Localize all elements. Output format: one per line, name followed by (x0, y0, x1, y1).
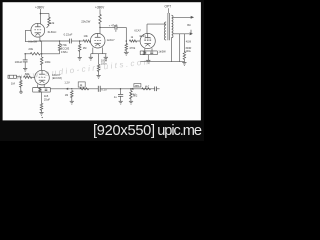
svg-text:4Ω/8: 4Ω/8 (186, 40, 192, 43)
watermark bar (0, 120, 204, 141)
svg-text:[920x550]upic.me: [920x550]upic.me (93, 123, 202, 139)
wire 470k top lead (59, 41, 61, 44)
wire B+ feed V1 upper (39, 9, 41, 24)
wire nfb cap lead (120, 89, 122, 95)
resistor Rk V3 (144, 51, 146, 55)
wire B+ stage2 (99, 9, 101, 14)
inductor OPT primary (165, 22, 166, 40)
core OPT (167, 13, 169, 40)
wire 470k g lead2 (125, 51, 127, 53)
ground 470k (124, 51, 129, 53)
resistor R NFB leg (40, 103, 43, 110)
wire 1M top lead (79, 41, 81, 44)
svg-text:4k7: 4k7 (145, 84, 150, 88)
wire 470k g lead (125, 41, 127, 44)
resistor R grid stopper stage2 (83, 40, 90, 43)
wire 470k bottom lead (59, 51, 61, 54)
svg-text:1M: 1M (65, 94, 68, 97)
resistor Rk V1b (39, 88, 41, 93)
wire V2 stub right (105, 54, 107, 57)
wire nfb res lead2 (130, 99, 132, 101)
node junction upper B+ (40, 13, 42, 15)
capacitor C 47uF (114, 25, 116, 29)
ground 1M (78, 56, 82, 58)
svg-text:22k/2W: 22k/2W (81, 19, 91, 23)
resistor R grid stopper power (129, 40, 136, 42)
ground nfb a (70, 100, 74, 102)
wire filter cap bottom lead (24, 62, 26, 68)
svg-text:100u: 100u (101, 62, 107, 66)
node NFB b (120, 88, 122, 90)
wire ground bus (140, 61, 184, 63)
box label NFB (134, 84, 141, 87)
wire cathode center down (41, 92, 43, 103)
resistor R grid leak 470k (125, 44, 128, 51)
wire cap stub (115, 30, 117, 32)
wire shunt lead (183, 59, 185, 62)
ground nfb b (119, 100, 123, 102)
arrow NFB mid (131, 88, 134, 90)
svg-text:+380V: +380V (95, 5, 105, 9)
wire coupling corner (125, 27, 127, 41)
ground V2 cathode (97, 74, 101, 76)
node gnd dot (42, 117, 43, 118)
wire V3 top bar (140, 50, 157, 52)
terminal 4ohm (190, 30, 192, 35)
svg-text:470k: 470k (61, 43, 67, 47)
wire signal line y41 (40, 40, 69, 42)
svg-text:(ECC83): (ECC83) (52, 77, 62, 80)
wire V1a grid to signal node (25, 30, 31, 41)
svg-text:6CA7: 6CA7 (134, 28, 141, 32)
svg-text:OPT: OPT (165, 5, 172, 9)
svg-text:68k: 68k (25, 72, 30, 76)
wire R bottom lead (47, 25, 49, 27)
resistor R 470k (58, 44, 61, 51)
wire sec return left (171, 38, 173, 62)
tube V1a upper triode (31, 23, 45, 37)
wire V2 cathode down (98, 54, 100, 64)
resistor R plate V1b (40, 57, 43, 65)
svg-text:470k: 470k (129, 46, 135, 50)
svg-text:1k5: 1k5 (44, 94, 49, 98)
wire OPT top lead (168, 8, 170, 13)
ground V2 right (104, 56, 108, 58)
svg-text:+ 47uF: + 47uF (109, 23, 118, 27)
tube V3 power pentode (140, 33, 155, 48)
svg-text:NFB: NFB (135, 86, 140, 88)
ground sec shunt (182, 62, 186, 64)
wire plate V3 up (146, 24, 148, 33)
node plate stage2 (99, 27, 101, 29)
svg-text:1k/5W: 1k/5W (158, 49, 166, 53)
node rail left end (24, 53, 26, 55)
wire cathode left post (32, 88, 34, 93)
svg-text:NFB 1: NFB 1 (130, 94, 137, 96)
wire V2 stub left (90, 54, 92, 57)
svg-text:0.1k/1W: 0.1k/1W (28, 41, 38, 44)
wire V2 pin right (102, 47, 104, 53)
arrow 8ohm (191, 16, 194, 19)
svg-text:+380V: +380V (35, 5, 45, 9)
svg-text:0.1u: 0.1u (101, 87, 107, 91)
wire sec return right (179, 34, 181, 62)
capacitor C filter 100uF (23, 59, 28, 61)
wire branch to R plate upper (40, 13, 49, 15)
wire V3 pin left (144, 48, 146, 51)
node signal/plate (40, 40, 42, 42)
ground nfb c (129, 100, 133, 102)
wire V2 pin left (92, 48, 94, 54)
svg-text:EL34: EL34 (140, 34, 147, 38)
wire plate column V1b (41, 41, 43, 57)
wire nfb cap lead2 (120, 96, 122, 101)
svg-text:ECC83: ECC83 (61, 46, 70, 50)
resistor R 1M nfb (71, 91, 74, 98)
capacitor C coupling 0.22uF (68, 39, 70, 44)
svg-text:8Ω: 8Ω (187, 23, 190, 27)
inductor OPT secondary (172, 15, 173, 37)
wire grid power (137, 40, 141, 42)
resistor R decoupling 20k (30, 53, 40, 56)
wire plate lead stage2 (99, 24, 101, 34)
resistor R nfb shunt (130, 91, 133, 99)
wire R top lead (48, 14, 50, 18)
wire cathode pin right (43, 84, 45, 87)
wire V3 right post (156, 51, 158, 55)
resistor R series nfb (80, 88, 89, 90)
wire cathode bottom bar (33, 91, 51, 93)
wire V1a cathode stub (39, 37, 41, 41)
resistor R grid leak 1M (78, 44, 81, 51)
wire B+ rail stage1 (25, 53, 30, 55)
resistor R upper bypass (48, 17, 51, 25)
wire 1M input top lead (20, 77, 22, 80)
wire cathode pin left (37, 84, 39, 87)
svg-text:1.2V: 1.2V (64, 81, 70, 85)
resistor R input 1M (20, 80, 23, 87)
ground V3 cathode (146, 59, 150, 61)
wire cathode right post (49, 88, 51, 93)
ground V1b cathode (39, 111, 43, 113)
resistor R grid stopper 68k (24, 76, 32, 79)
arrow 4ohm (190, 32, 193, 35)
resistor R plate 22k (99, 14, 102, 23)
svg-text:1M: 1M (11, 81, 16, 85)
svg-text:6L6GC: 6L6GC (48, 30, 57, 34)
wire 4ohm tap (173, 33, 190, 35)
wire grid V1b (32, 76, 35, 78)
wire V3 left post (139, 51, 141, 55)
capacitor C series nfb (97, 86, 99, 92)
svg-text:20k: 20k (28, 47, 33, 51)
node rail crossing (41, 53, 43, 55)
wire V3 cathode down (147, 55, 149, 60)
wire V3 pin right (151, 48, 153, 51)
svg-text:0.22uF: 0.22uF (64, 32, 73, 36)
node NFB a (71, 88, 73, 90)
wire filter cap top lead (24, 54, 26, 60)
wire V3 bottom bar (140, 54, 157, 56)
tube V1b input triode (35, 70, 50, 85)
svg-text:100uF: 100uF (15, 60, 23, 64)
resistor Rk V2 (97, 64, 100, 71)
capacitor Ck V1b (45, 88, 48, 90)
node 1M top (79, 40, 81, 42)
box label 1k (78, 82, 85, 87)
svg-text:0.68u: 0.68u (61, 50, 68, 54)
wire 1M input bottom lead (20, 87, 22, 91)
wire nfb res lead (130, 89, 132, 91)
capacitor C nfb series2 (154, 87, 156, 92)
node NFB c (130, 88, 132, 90)
node 470k top (59, 40, 61, 42)
tube V2 driver triode (90, 33, 105, 48)
wire 8ohm tap (173, 16, 191, 18)
wire 1M bottom lead (79, 51, 81, 57)
wire V2 gnd lead (98, 71, 100, 75)
svg-text:25uF: 25uF (44, 98, 50, 102)
wire nfb r lead (71, 98, 73, 102)
capacitor C nfb gnd (118, 93, 123, 95)
svg-text:100u: 100u (185, 50, 191, 53)
ground filter cap (23, 67, 27, 69)
ground input 1M (20, 91, 22, 93)
node power grid (126, 40, 128, 42)
resistor R shunt sec (183, 52, 186, 60)
wire to ground V1b (41, 110, 43, 112)
wire cathode top bar (33, 87, 51, 89)
wire coupling line (100, 26, 115, 28)
border left (0, 0, 3, 121)
ground V2 left (89, 56, 93, 58)
border right (201, 0, 204, 121)
capacitor Ck V3 (150, 51, 153, 53)
border top (0, 0, 204, 2)
svg-text:12k: 12k (50, 21, 55, 25)
connector input jack (8, 75, 16, 78)
resistor R nfb 4k7 (142, 88, 151, 90)
arrow NFB left (66, 88, 69, 90)
svg-text:100k: 100k (45, 60, 51, 64)
wire 4ohm shunt (183, 34, 185, 52)
svg-text:12AU7: 12AU7 (107, 38, 115, 42)
wire NFB rail (50, 88, 98, 90)
svg-text:10k: 10k (84, 34, 89, 38)
node input junction (20, 76, 22, 78)
wire V2 base bar (91, 53, 107, 55)
